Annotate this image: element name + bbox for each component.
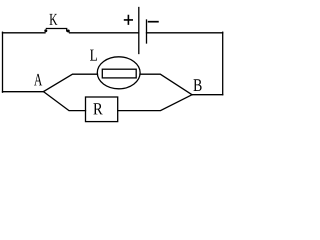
node B label: [194, 79, 202, 91]
wire lamp to node B: [140, 74, 192, 95]
wire left vertical: [2, 32, 4, 92]
label -: [149, 21, 158, 23]
wire node A to lamp: [44, 74, 98, 91]
wire battery to top-right: [147, 32, 223, 34]
node A label: [34, 74, 42, 86]
resistor R box: [86, 97, 118, 122]
lamp L inner rectangle: [102, 69, 136, 78]
wire top-left horizontal: [3, 32, 46, 34]
battery positive long plate: [138, 8, 140, 54]
battery negative short plate: [146, 20, 148, 43]
wire bottom-left horizontal: [3, 91, 44, 93]
wire right vertical: [222, 32, 224, 94]
wire resistor to node B: [118, 95, 192, 111]
label R: [93, 103, 102, 114]
label K: [50, 14, 58, 25]
lamp L ellipse: [97, 57, 140, 89]
label +: [125, 16, 133, 25]
label L: [90, 50, 97, 61]
switch K: [44, 29, 70, 33]
wire switch to battery: [70, 32, 139, 34]
wire bottom-right horizontal: [192, 94, 223, 96]
wire node A to resistor: [44, 92, 86, 111]
